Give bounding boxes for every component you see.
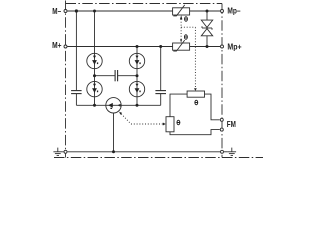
thermistor R1 in M- rail <box>173 5 190 16</box>
capacitor C2 middle plates <box>115 70 118 81</box>
node M- rail / C1 branch <box>75 9 78 12</box>
wire M- rail right of thermistor R1 <box>190 10 220 12</box>
diode D1 top-left <box>87 53 102 68</box>
wire right diode column upper <box>136 47 138 54</box>
node middle link right <box>136 74 139 77</box>
wire left ground stub <box>62 151 63 153</box>
wire M+ rail right of thermistor R2 <box>190 46 220 48</box>
wire diode D5 to ground rail <box>113 113 115 152</box>
svg-text:Mp–: Mp– <box>227 6 241 15</box>
terminal M+ <box>64 45 67 48</box>
terminal ground left <box>64 150 67 153</box>
wire TVS branch <box>206 11 208 47</box>
thermal arrow into thermistor R2 <box>180 39 182 42</box>
wire bottom link right <box>121 104 161 106</box>
diode D5 bottom-center horizontal <box>106 98 121 113</box>
wire left capacitor branch lower <box>75 94 77 106</box>
mechanical linkage dotted from diode D5 to resistor R4 <box>121 114 163 124</box>
wire right capacitor branch upper <box>160 47 162 91</box>
svg-text:M–: M– <box>52 7 61 16</box>
enclosure border dash-dot left <box>65 1 67 158</box>
wire right capacitor branch lower <box>160 94 162 106</box>
linkage arrow into resistor R4 <box>163 123 166 126</box>
thermal linkage dotted lines to thermistors <box>181 19 195 88</box>
terminal Mp- <box>221 10 224 13</box>
wire resistor R4 to FM lower terminal <box>170 130 220 135</box>
terminal FM upper <box>220 118 223 121</box>
potentiometer R3 wiper arrow <box>194 88 197 91</box>
enclosure border dash-dot right <box>221 4 223 158</box>
node ground rail / D5 <box>112 150 115 153</box>
node M- rail / left column <box>93 10 96 13</box>
wire right diode column middle <box>136 69 138 82</box>
thermal arrow into thermistor R1 <box>180 15 183 19</box>
thermistor R1 theta label <box>184 17 187 22</box>
wire potentiometer right lead to FM upper terminal <box>205 94 220 120</box>
wire potentiometer left lead to resistor R4 <box>170 94 187 117</box>
wire right ground stub <box>224 151 227 153</box>
wire left diode column lower <box>94 97 96 106</box>
svg-text:Mp+: Mp+ <box>227 42 241 51</box>
wire left diode column upper <box>94 11 96 53</box>
terminal M- <box>64 10 67 13</box>
diode D4 bottom-right <box>129 81 144 96</box>
node M+ rail / right column <box>136 45 139 48</box>
potentiometer R3 theta label <box>195 100 198 105</box>
ground symbol left <box>53 148 62 156</box>
wire right diode column lower <box>136 97 138 106</box>
resistor R4 theta label <box>177 120 180 125</box>
capacitor C1 left plates <box>71 91 82 94</box>
svg-text:M+: M+ <box>52 41 62 50</box>
capacitor C3 right plates <box>155 91 166 94</box>
enclosure border dash-dot top <box>66 3 223 5</box>
diode D3 bottom-left <box>87 81 102 96</box>
node bottom link right <box>136 104 139 107</box>
wire middle link right <box>118 75 137 77</box>
wire M+ rail left <box>67 46 172 48</box>
thermistor R2 theta label <box>184 35 187 40</box>
terminal ground right <box>221 150 224 153</box>
resistor R4 (thermistor) <box>166 117 174 132</box>
thermistor R2 in M+ rail <box>173 40 190 51</box>
wire left diode column middle <box>94 69 96 82</box>
wire bottom link left <box>76 104 105 106</box>
node M- rail / TVS <box>206 10 209 13</box>
wire middle link left <box>95 75 115 77</box>
node bottom link left <box>93 104 96 107</box>
wire left capacitor branch upper <box>75 11 77 90</box>
diode D2 top-right <box>129 53 144 68</box>
potentiometer R3 (sender) <box>187 91 204 97</box>
terminal Mp+ <box>221 45 224 48</box>
node middle link left <box>93 74 96 77</box>
linkage arrow into diode D5 <box>119 112 122 115</box>
wire M- rail left <box>67 10 172 12</box>
svg-text:FM: FM <box>227 120 236 129</box>
chassis boundary dash-dot bottom <box>54 157 263 159</box>
terminal FM lower <box>220 128 223 131</box>
node M+ rail / TVS <box>206 45 209 48</box>
TVS suppressor D6 <box>201 20 212 36</box>
wire ground rail <box>68 151 221 153</box>
node M+ rail / C3 branch <box>159 45 162 48</box>
ground symbol right <box>227 148 236 156</box>
